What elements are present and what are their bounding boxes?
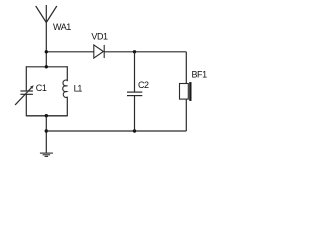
- node junction antenna/top rail: [45, 50, 48, 53]
- inductor L1: [63, 80, 67, 97]
- headphone BF1: [180, 84, 189, 100]
- node junction tank top: [45, 65, 48, 68]
- wire tank left branch lower: [25, 94, 27, 116]
- node junction tank bottom: [45, 114, 48, 117]
- svg-text:L1: L1: [74, 83, 83, 93]
- capacitor C2: [127, 92, 142, 96]
- wire center stem to ground: [45, 116, 47, 153]
- wire right rail lower: [185, 99, 187, 131]
- node junction bottom rail: [45, 129, 48, 132]
- node junction C2 top: [133, 50, 136, 53]
- wire antenna stem: [45, 23, 47, 67]
- capacitor C1 (variable): [15, 88, 33, 105]
- svg-text:BF1: BF1: [192, 70, 208, 80]
- tank top rail wire: [26, 66, 67, 68]
- svg-text:C2: C2: [138, 80, 149, 90]
- wire C2 branch upper: [134, 52, 136, 92]
- wire top rail right (diode cathode to top-right corner): [104, 51, 186, 53]
- svg-text:C1: C1: [36, 83, 47, 93]
- wire tank right branch upper: [66, 66, 68, 81]
- wire C2 branch lower: [134, 96, 136, 131]
- node junction C2 bottom: [133, 129, 136, 132]
- antenna WA1: [36, 5, 57, 23]
- wire top rail left (junction to diode anode): [46, 51, 94, 53]
- wire right rail upper: [185, 52, 187, 84]
- wire tank left branch upper: [25, 66, 27, 91]
- wire bottom rail: [46, 130, 186, 132]
- wire tank right branch lower: [66, 97, 68, 117]
- svg-text:WA1: WA1: [53, 22, 71, 32]
- svg-text:VD1: VD1: [91, 31, 108, 41]
- ground: [40, 153, 53, 156]
- tank bottom rail wire: [26, 115, 67, 117]
- diode VD1: [94, 45, 104, 58]
